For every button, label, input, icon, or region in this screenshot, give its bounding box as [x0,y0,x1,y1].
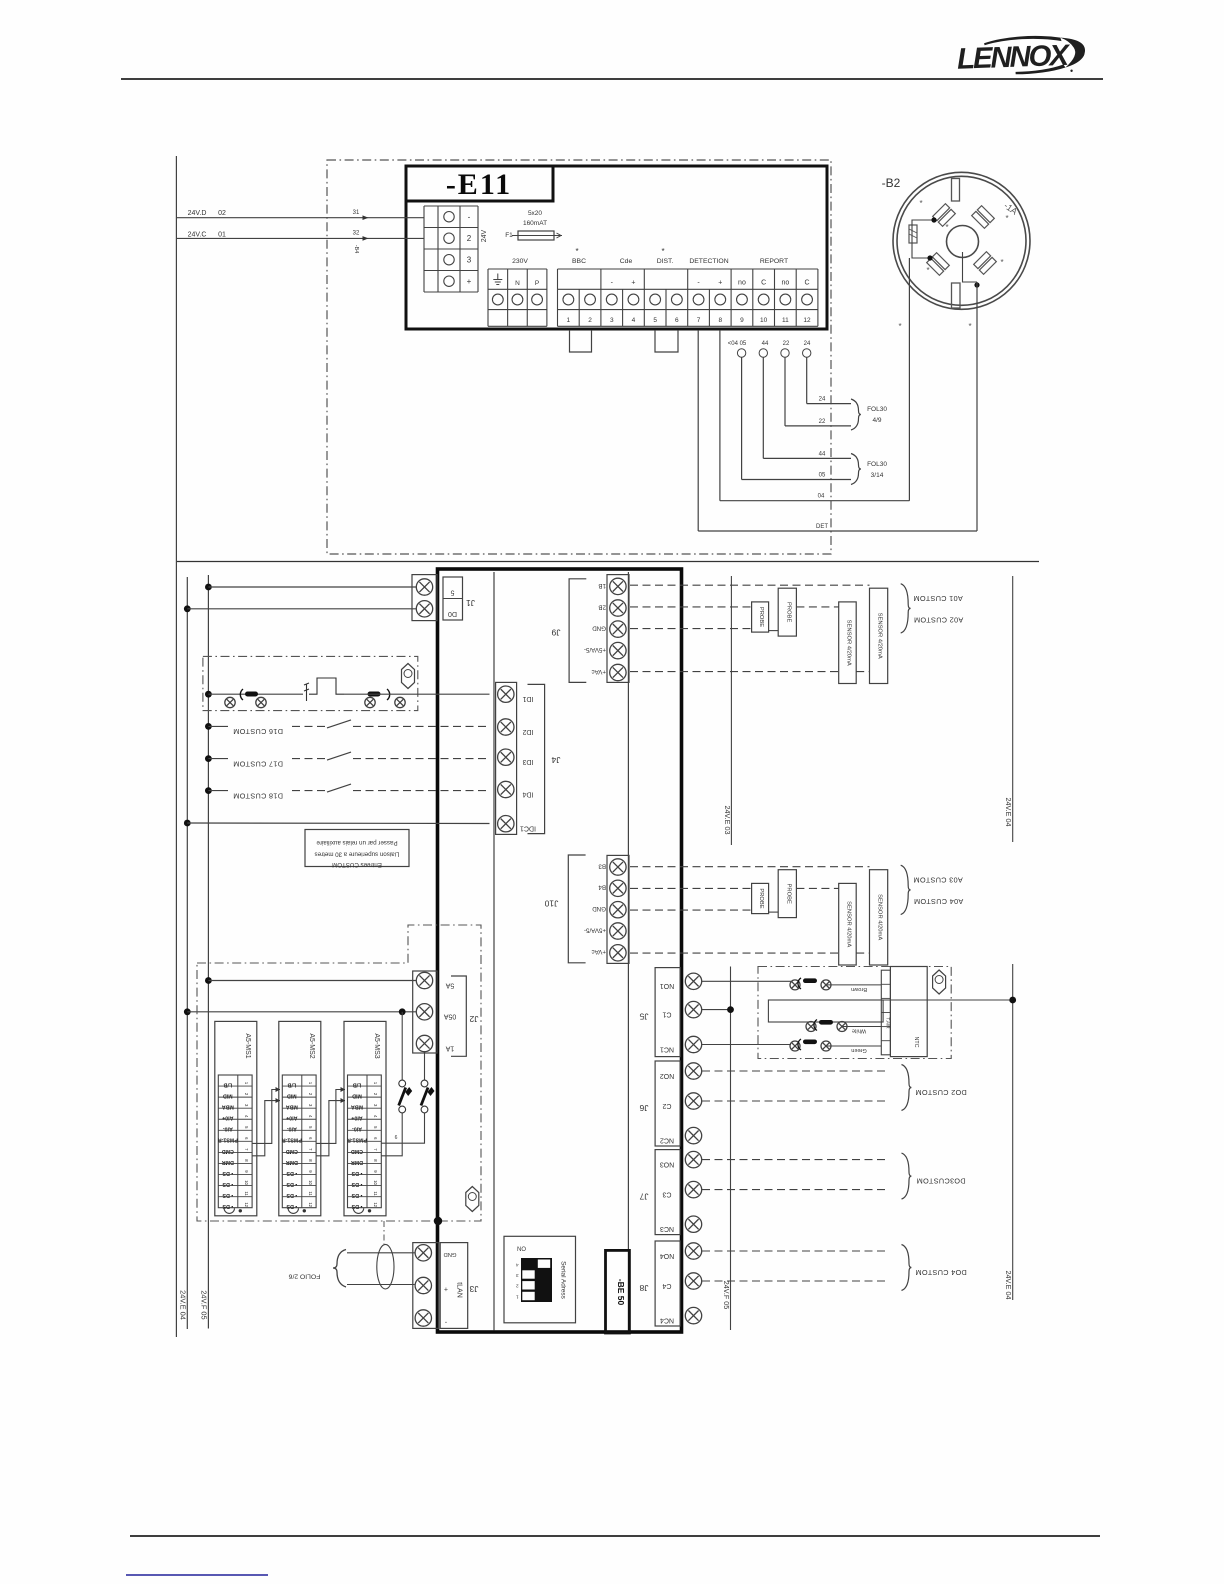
svg-text:LENNOX: LENNOX [957,39,1072,76]
J5 terminal NC1 [685,1036,701,1052]
svg-text:32: 32 [353,231,360,237]
brace folio [333,1250,346,1288]
svg-text:12: 12 [244,1202,249,1207]
svg-text:1B: 1B [598,582,606,589]
svg-text:3/14: 3/14 [871,472,884,479]
J9 terminal 2B [610,600,626,616]
svg-text:DO2 CUSTOM: DO2 CUSTOM [915,1088,967,1097]
dashed wires J7 [702,1159,886,1161]
J10 bracket [568,855,585,963]
svg-text:C: C [761,280,766,287]
connector A5-MS1 [215,1021,257,1215]
rail B 24V.F [207,575,209,1329]
connector J7 [655,1150,680,1235]
svg-text:DIST.: DIST. [657,258,674,265]
svg-text:NO3: NO3 [660,1160,675,1167]
svg-text:6: 6 [675,317,679,324]
inner pcb line right [627,572,629,1331]
J10 terminal +5VA/5- [610,923,626,939]
svg-text:2B: 2B [598,603,606,610]
jumper terminals 1-2 [570,330,592,352]
svg-text:A5-MS2: A5-MS2 [308,1033,315,1058]
relay wire [205,691,212,698]
svg-text:D16 CUSTOM: D16 CUSTOM [233,727,283,736]
svg-text:-B2: -B2 [882,176,901,190]
splice white [806,1022,816,1032]
rail A 24V.E [186,577,188,1329]
svg-text:Brown: Brown [851,986,867,992]
svg-text:DETECTION: DETECTION [689,258,728,265]
svg-text:12: 12 [803,317,811,324]
thick board enclosure [438,569,682,1332]
svg-text:SENSOR 4/20mA: SENSOR 4/20mA [877,894,883,940]
cable ellipse [377,1244,394,1289]
svg-text:1: 1 [567,317,571,324]
J9 terminal 1B [610,578,626,594]
svg-text:C1: C1 [662,1010,671,1017]
B2 clip upper-right [972,206,995,229]
J10 terminal B3 [610,859,626,875]
wire rail A to J4 IDC1 [184,820,191,827]
hexagon gland custom box [466,1187,479,1212]
wire rail A to J2 05A [184,1008,191,1015]
svg-text:*: * [661,247,664,256]
J2 terminal 1A [416,1035,432,1051]
24V rail right upper [1012,576,1014,842]
svg-text:160mAT: 160mAT [523,220,547,227]
svg-text:*: * [1005,214,1008,223]
left rail L0 [175,156,177,1337]
long wire to right rail [883,999,1013,1001]
svg-text:PROBE: PROBE [758,888,764,908]
svg-text:+: + [631,280,635,287]
wire B2 to terminal 7 [976,282,978,531]
svg-text:DO4 CUSTOM: DO4 CUSTOM [915,1268,967,1277]
svg-text:C2: C2 [662,1102,671,1109]
svg-text:*: * [926,266,929,275]
svg-text:DET: DET [816,524,828,530]
svg-text:04: 04 [818,494,825,500]
brace + CUSTOM labels [901,584,911,633]
svg-text:05A: 05A [443,1013,456,1020]
dashed analog wires A03 CUSTOM group [630,866,870,868]
svg-text:GND: GND [592,625,606,632]
svg-text:+: + [718,280,722,287]
wire terminal 8 [719,330,721,501]
svg-text:ID1: ID1 [522,695,533,702]
J2 terminal 5A [416,972,432,988]
connector J10 [607,855,629,963]
board label -BE 50 [606,1250,630,1333]
header rule [121,78,1103,80]
svg-text:10: 10 [760,317,768,324]
svg-text:no: no [781,280,789,287]
svg-text:24V.E 04: 24V.E 04 [1004,798,1013,827]
J4 terminal ID4 [498,781,514,797]
B2 clip lower-left [927,253,950,276]
svg-text:NO2: NO2 [660,1072,675,1079]
svg-text:P: P [535,280,539,287]
svg-text:SENSOR 4/20mA: SENSOR 4/20mA [845,620,851,666]
svg-text:Liaison superieure a 30 metres: Liaison superieure a 30 metres [315,851,400,858]
svg-text:+5VA/5-: +5VA/5- [584,646,606,653]
J4 terminal ID2 [498,719,514,735]
separator line bottom section [176,561,1039,563]
svg-text:ID3: ID3 [522,758,533,765]
J4 terminal ID3 [498,749,514,765]
wires MS3 to switches/J2 [381,1113,424,1143]
footer rule [130,1535,1100,1537]
J6 terminal NC2 [685,1127,701,1143]
svg-text:22: 22 [783,341,790,347]
svg-text:*: * [898,322,901,331]
svg-text:-B4: -B4 [353,245,359,254]
custom input row D17 CUSTOM to J4 [205,755,212,762]
connector J2 [413,971,437,1053]
J7 terminal NC3 [685,1216,701,1232]
230V terminal table [488,268,547,270]
svg-text:3: 3 [516,1273,519,1278]
svg-text:12: 12 [308,1202,313,1207]
svg-text:J7: J7 [639,1192,648,1202]
svg-text:PROBE: PROBE [785,602,791,622]
J5 terminal NO1 [685,973,701,989]
dash-dot enclosure top section [327,160,831,554]
svg-text:ID2: ID2 [522,728,533,735]
svg-text:J10: J10 [544,899,558,909]
svg-text:7: 7 [697,317,701,324]
serial address DIP switch [504,1236,576,1323]
svg-text:4: 4 [516,1263,519,1268]
svg-text:no: no [738,280,746,287]
svg-text:01: 01 [218,232,226,239]
J5 wires [702,980,791,982]
svg-text:PROBE: PROBE [785,884,791,904]
footer link line [126,1574,268,1576]
svg-text:1A: 1A [445,1044,454,1051]
svg-text:05: 05 [819,473,826,479]
J9 bracket [569,579,586,683]
svg-text:24V: 24V [481,229,488,242]
svg-text:C: C [805,280,810,287]
svg-text:3: 3 [467,256,472,265]
svg-text:24V.C: 24V.C [188,232,207,239]
custom input row D18 CUSTOM to J4 [205,787,212,794]
svg-text:44: 44 [762,341,769,347]
wire terminal 11 to FOL30 (22) [781,349,789,357]
svg-text:24V.E 03: 24V.E 03 [723,806,732,835]
24V terminal block of E11 [424,205,478,207]
svg-text:BBC: BBC [572,258,586,265]
dashed wires J8 [702,1250,886,1252]
svg-text:2: 2 [516,1284,519,1289]
svg-text:3: 3 [610,317,614,324]
pressure switch 1 [399,1080,406,1087]
daisy chain wires MS1-MS2 [252,1090,280,1144]
J3 terminal + [415,1277,431,1293]
splice brown [790,980,800,990]
J8 terminal NO4 [685,1243,701,1259]
svg-text:J3: J3 [469,1284,478,1294]
svg-text:A5-MS3: A5-MS3 [373,1033,380,1058]
J6 terminal NO2 [685,1063,701,1079]
svg-text:ID4: ID4 [522,790,533,797]
relay wire to J4 [344,693,490,695]
svg-text:tLAN: tLAN [456,1282,463,1298]
connector FOL30 3/14 [851,454,861,485]
svg-text:9: 9 [740,317,744,324]
svg-text:D0: D0 [448,610,457,617]
B2 clip upper-left [933,204,956,227]
tLAN wires [347,1252,415,1254]
svg-text:10: 10 [244,1180,249,1185]
svg-text:*: * [945,223,948,232]
svg-text:Passer par un relais auxiliair: Passer par un relais auxiliaire [316,839,398,846]
svg-text:*: * [575,247,578,256]
svg-text:Cde: Cde [620,258,633,265]
J10 terminal GND [610,902,626,918]
svg-text:GND: GND [592,905,606,912]
svg-text:J4: J4 [551,755,560,765]
wire rail B to J2 [205,977,212,984]
svg-text:+VAc: +VAc [591,948,606,955]
svg-text:NTC: NTC [913,1036,919,1047]
J4 terminal ID1 [498,686,514,702]
24V rail right lower [1012,964,1014,1300]
svg-text:A01 CUSTOM: A01 CUSTOM [913,594,963,603]
power supply box -E11 [406,166,827,329]
svg-text:230V: 230V [512,258,528,265]
J3 terminal - [415,1310,431,1326]
svg-text:T.AIR: T.AIR [886,1017,891,1029]
svg-text:ON: ON [517,1245,526,1251]
svg-text:22: 22 [819,419,826,425]
custom input row D16 CUSTOM to J4 [205,723,212,730]
B2 internal wires [912,220,934,258]
svg-text:GND: GND [444,1251,457,1257]
J2 terminal 05A [416,1004,432,1020]
svg-text:N: N [515,280,520,287]
connector A5-MS3 [344,1021,386,1215]
svg-text:▪ DS: ▪ DS [351,1203,362,1209]
J6 terminal C2 [685,1093,701,1109]
J8 terminal NC4 [685,1307,701,1323]
inner pcb line left [493,572,495,1331]
dash-dot relay box [203,656,418,710]
dashed analog wires A01 CUSTOM group [630,584,870,586]
cable body rect [768,1000,883,1022]
brace + CUSTOM labels [901,865,911,914]
svg-text:NO4: NO4 [660,1252,675,1259]
svg-text:IDC1: IDC1 [520,825,536,832]
svg-text:*: * [919,199,922,208]
svg-text:24V.F 05: 24V.F 05 [722,1281,731,1310]
wire rail B to J1 [205,584,212,591]
svg-text:C3: C3 [662,1190,671,1197]
connector J1 [412,575,437,621]
J10 terminal +VAc [610,945,626,961]
svg-text:2: 2 [588,317,592,324]
svg-text:10: 10 [308,1180,313,1185]
svg-text:Serial Adress: Serial Adress [560,1261,567,1299]
svg-text:J1: J1 [466,598,475,608]
svg-text:*: * [968,322,971,331]
connector J6 [655,1061,680,1146]
hexagon gland ntc [933,970,946,994]
svg-text:NC1: NC1 [660,1045,674,1052]
svg-text:White: White [852,1028,866,1034]
J7 terminal NO3 [685,1151,701,1167]
svg-text:-BE 50: -BE 50 [616,1279,626,1306]
B2 top slot [952,179,960,202]
J5 terminal C1 [685,1001,701,1017]
connector A5-MS2 [279,1021,321,1215]
svg-text:J6: J6 [639,1103,648,1113]
splice green [790,1041,800,1051]
connector J3 tLAN [413,1243,439,1329]
svg-text:+: + [444,1285,448,1292]
sensor head connector [881,970,890,1055]
svg-text:+: + [467,277,472,286]
svg-text:5A: 5A [445,981,454,988]
svg-text:31: 31 [353,210,360,216]
probe boxes [752,883,769,913]
svg-text:02: 02 [218,210,226,217]
connector J4 [496,682,517,834]
sensor 4/20mA boxes [839,602,857,684]
sensor 4/20mA boxes [839,883,857,965]
svg-text:24V.E 04: 24V.E 04 [1004,1271,1013,1300]
svg-text:5x20: 5x20 [528,210,542,217]
svg-text:Green: Green [851,1047,867,1053]
svg-text:4: 4 [632,317,636,324]
svg-text:PROBE: PROBE [758,607,764,627]
svg-text:A02 CUSTOM: A02 CUSTOM [914,616,964,625]
connector J9 [607,575,629,683]
svg-text:NC2: NC2 [660,1136,674,1143]
J7 terminal C3 [685,1181,701,1197]
svg-text:SENSOR 4/20mA: SENSOR 4/20mA [877,613,883,659]
splice left [225,697,235,707]
svg-text:*: * [1000,258,1003,267]
wire rail A to J1 [184,605,191,612]
svg-text:24V.D: 24V.D [188,210,207,217]
svg-text:A03 CUSTOM: A03 CUSTOM [913,876,963,885]
svg-text:<04 05: <04 05 [728,341,747,347]
svg-text:▪ DS: ▪ DS [222,1203,233,1209]
svg-text:24: 24 [804,341,811,347]
24V rail mid upper [730,576,732,845]
brace DO3CUSTOM [902,1153,912,1199]
NC contact [304,678,344,701]
J8 terminal C4 [685,1273,701,1289]
NTC sensor dash-dot box [758,967,951,1059]
svg-text:REPORT: REPORT [760,258,788,265]
J4 bracket [528,684,545,833]
sensor head body [890,967,927,1057]
svg-text:2: 2 [467,234,472,243]
svg-text:J9: J9 [551,628,560,638]
svg-text:5: 5 [450,589,454,596]
svg-text:24: 24 [819,397,826,403]
dash-dot big custom box [197,925,481,1221]
svg-text:1: 1 [516,1294,519,1299]
B2 left terminal block [909,225,917,243]
svg-text:DO3CUSTOM: DO3CUSTOM [916,1177,965,1186]
connector J8 [655,1241,680,1326]
svg-text:44: 44 [819,451,826,457]
svg-text:4/9: 4/9 [872,417,881,424]
J3 terminal GND [415,1245,431,1261]
svg-text:NC3: NC3 [660,1225,674,1232]
svg-text:FOL30: FOL30 [867,461,887,468]
svg-text:12: 12 [373,1202,378,1207]
svg-text:+VAc: +VAc [591,668,606,675]
J9 terminal +VAc [610,664,626,680]
svg-text:J2: J2 [469,1014,478,1024]
svg-text:F1: F1 [505,232,513,239]
svg-text:FOL30: FOL30 [867,406,887,413]
J10 terminal B4 [610,880,626,896]
svg-text:A5-MS1: A5-MS1 [244,1033,251,1058]
wire terminal 7 DET [697,330,699,531]
svg-text:NO1: NO1 [660,982,675,989]
24V rail mid lower [730,967,732,1331]
wire B2 to terminal 8 [908,258,910,501]
brace DO4 CUSTOM [902,1245,912,1291]
svg-text:+5VA/5-: +5VA/5- [584,926,606,933]
wire terminal 9 to FOL30 (05) [737,349,745,357]
J4 terminal IDC1 [498,816,514,832]
svg-text:C4: C4 [662,1282,671,1289]
daisy chain wires MS2-MS3 [316,1090,345,1144]
probe boxes [752,602,769,632]
svg-text:▪ DS: ▪ DS [286,1203,297,1209]
dashed wires J6 [702,1070,886,1072]
shield drop dash-dot [383,1221,385,1244]
svg-text:J5: J5 [639,1012,648,1022]
svg-text:11: 11 [308,1191,313,1196]
hexagon gland relay box [402,664,415,689]
svg-text:B4: B4 [598,884,606,891]
svg-text:B3: B3 [598,862,606,869]
svg-text:24V.F 05: 24V.F 05 [200,1290,209,1319]
J2 bracket [451,976,466,1056]
wire terminal 12 to FOL30 (24) [803,349,811,357]
svg-text:D17 CUSTOM: D17 CUSTOM [233,759,283,768]
splice right [365,697,375,707]
svg-text:J8: J8 [639,1283,648,1293]
svg-text:8: 8 [718,317,722,324]
B2 bottom slot [952,283,961,308]
note box Entrees CUSTOM [305,830,409,867]
svg-text:11: 11 [782,317,789,324]
svg-text:10: 10 [373,1180,378,1185]
svg-text:D18 CUSTOM: D18 CUSTOM [233,791,283,800]
J9 terminal +5VA/5- [610,642,626,658]
connector FOL30 4/9 [851,399,861,430]
svg-text:11: 11 [373,1191,378,1196]
jumper terminals 5-6 [655,330,678,352]
svg-text:5: 5 [653,317,657,324]
svg-text:24V.E 04: 24V.E 04 [179,1290,188,1320]
svg-text:A04 CUSTOM: A04 CUSTOM [914,897,964,906]
svg-text:-: - [468,213,471,222]
pressure switch 2 [421,1080,428,1087]
svg-text:6: 6 [395,1135,398,1141]
main 12-pole terminal strip [558,268,818,270]
svg-text:SENSOR 4/20mA: SENSOR 4/20mA [845,901,851,947]
